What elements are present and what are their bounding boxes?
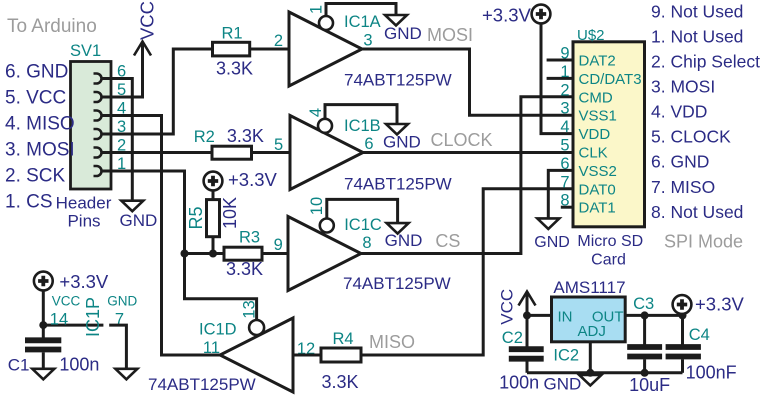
svg-text:9: 9 [274, 236, 283, 254]
wire MOSI IC1A output to SD pin3 [362, 49, 573, 115]
IC1B enable pin4 wire loop to ground [325, 105, 397, 124]
wire header pin5 to VCC [101, 42, 143, 98]
svg-text:SPI Mode: SPI Mode [664, 232, 743, 252]
svg-text:4: 4 [307, 108, 325, 117]
svg-text:IC1A: IC1A [344, 13, 381, 31]
wire ground rail AMS [527, 371, 683, 374]
wire R5 to CS node [212, 237, 215, 254]
svg-text:VDD: VDD [579, 126, 611, 143]
junction C1 / pin14 [39, 321, 47, 329]
svg-text:100n: 100n [59, 355, 99, 375]
svg-text:1: 1 [307, 5, 325, 14]
svg-text:Card: Card [591, 252, 626, 269]
svg-text:IC1P: IC1P [83, 297, 103, 337]
svg-text:R2: R2 [194, 128, 215, 146]
capacitor C2 [526, 315, 529, 346]
svg-text:+3.3V: +3.3V [228, 169, 278, 190]
wire R3 to IC1C pin9 [262, 252, 288, 255]
svg-text:GND: GND [544, 375, 582, 394]
svg-text:CD/DAT3: CD/DAT3 [579, 71, 642, 88]
resistor R1 [213, 42, 250, 56]
resistor R5 [207, 200, 220, 237]
buffer IC1A [289, 12, 362, 86]
svg-text:1. CS: 1. CS [5, 192, 53, 213]
svg-text:8. Not Used: 8. Not Used [651, 202, 743, 222]
header pin 4 contact [94, 111, 102, 121]
svg-text:MISO: MISO [369, 332, 415, 352]
capacitor C4 [681, 315, 684, 344]
header pin 6 contact [94, 74, 102, 84]
IC1D enable bubble [249, 320, 264, 335]
junction R5 bottom [209, 250, 217, 258]
ground IC1C [387, 223, 409, 234]
IC1A enable pin1 wire loop to ground [326, 4, 396, 17]
svg-text:DAT1: DAT1 [579, 200, 616, 217]
svg-text:CS: CS [435, 231, 460, 251]
svg-text:2. Chip Select: 2. Chip Select [651, 51, 760, 71]
power +3.3V SD [532, 5, 551, 24]
svg-text:C3: C3 [633, 295, 654, 313]
svg-text:Header: Header [56, 194, 112, 213]
IC1A enable bubble [319, 16, 333, 30]
svg-text:10: 10 [308, 197, 326, 215]
junction C3 / rail [641, 369, 649, 377]
power VCC arrow [134, 42, 151, 56]
wire CLOCK IC1B output to SD pin5 [363, 151, 573, 154]
ground IC1P pin7 [115, 369, 137, 380]
svg-text:3.3K: 3.3K [226, 259, 263, 279]
svg-text:6. GND: 6. GND [651, 152, 709, 172]
svg-text:IC2: IC2 [553, 347, 579, 365]
svg-text:100nF: 100nF [686, 363, 737, 383]
ground C1 [32, 369, 54, 380]
svg-text:2. SCK: 2. SCK [5, 166, 66, 187]
junction OUT / C3 [641, 311, 649, 319]
svg-text:IC1C: IC1C [344, 216, 382, 234]
capacitor C1 [42, 325, 45, 338]
svg-text:74ABT125PW: 74ABT125PW [148, 375, 256, 394]
wire IC1D pin12 to R4 [293, 354, 321, 357]
svg-text:74ABT125PW: 74ABT125PW [343, 274, 451, 293]
buffer IC1C [288, 217, 361, 291]
wire CS to IC1D enable [185, 254, 257, 321]
regulator IC2 AMS1117 body [552, 297, 626, 342]
svg-text:3.3K: 3.3K [322, 372, 359, 392]
buffer IC1B [290, 116, 363, 190]
resistor R2 [212, 146, 252, 159]
svg-text:9. Not Used: 9. Not Used [651, 1, 743, 21]
svg-text:GND: GND [385, 231, 423, 250]
svg-text:14: 14 [50, 311, 68, 329]
svg-text:5: 5 [274, 136, 283, 154]
wire +3.3V to IC1P pin14 [42, 290, 45, 325]
svg-text:3.3K: 3.3K [216, 58, 253, 78]
svg-text:+3.3V: +3.3V [695, 294, 745, 315]
svg-text:3. MOSI: 3. MOSI [5, 140, 75, 161]
svg-text:VSS2: VSS2 [579, 163, 617, 180]
svg-text:CLOCK: CLOCK [431, 130, 493, 150]
wire R1 to IC1A pin2 [250, 48, 289, 51]
wire header pin3 MOSI up to R1 [101, 49, 213, 134]
svg-text:Micro SD: Micro SD [577, 233, 643, 250]
junction ADJ / rail [586, 369, 594, 377]
resistor R4 [321, 348, 361, 362]
svg-text:+3.3V: +3.3V [482, 5, 532, 26]
wire +3.3V to R5 [212, 190, 215, 199]
svg-text:5: 5 [560, 137, 569, 155]
svg-text:3.3K: 3.3K [227, 126, 264, 146]
power +3.3V AMS out [673, 295, 692, 314]
svg-text:13: 13 [240, 300, 258, 318]
svg-text:10uF: 10uF [629, 375, 670, 395]
svg-text:IC1B: IC1B [344, 117, 381, 135]
IC1B enable bubble [318, 119, 332, 133]
power +3.3V IC1P [34, 272, 53, 291]
svg-text:C4: C4 [689, 326, 710, 344]
svg-text:U$2: U$2 [577, 27, 605, 44]
wire SD pin1 stub [547, 77, 573, 80]
wire SD pin8 stub [561, 206, 573, 209]
wire R2 to IC1B pin5 [252, 151, 291, 154]
wire header pin4 MISO down to IC1D output [101, 116, 220, 356]
svg-text:GND: GND [107, 294, 137, 309]
svg-text:100n: 100n [499, 372, 539, 392]
svg-text:R5: R5 [186, 206, 206, 229]
svg-text:IC1D: IC1D [199, 321, 237, 339]
wire OUT rail [625, 314, 682, 317]
wire CS row to R3 [185, 252, 225, 255]
svg-text:7. MISO: 7. MISO [651, 177, 715, 197]
svg-text:Pins: Pins [67, 212, 100, 231]
wire VCC to IN [527, 292, 552, 316]
svg-text:2: 2 [560, 81, 569, 99]
svg-text:GND: GND [120, 211, 158, 230]
svg-text:6: 6 [364, 135, 373, 153]
Micro SD card connector U$2 body [573, 42, 645, 227]
capacitor C3 [643, 315, 646, 344]
ground IC1B [386, 124, 408, 135]
svg-text:R1: R1 [221, 25, 242, 43]
power VCC arrow AMS [519, 292, 536, 306]
svg-text:AMS1117: AMS1117 [553, 278, 625, 297]
svg-text:VSS1: VSS1 [579, 108, 617, 125]
svg-text:3. MOSI: 3. MOSI [651, 77, 715, 97]
wire IC1P pin7 to ground [109, 325, 126, 369]
svg-text:74ABT125PW: 74ABT125PW [344, 71, 452, 90]
svg-text:GND: GND [383, 133, 421, 152]
svg-text:6. GND: 6. GND [5, 62, 68, 83]
svg-text:5. CLOCK: 5. CLOCK [651, 127, 731, 147]
wire IC1P pin14 stub [43, 324, 103, 327]
svg-text:4. VDD: 4. VDD [651, 102, 707, 122]
svg-text:IN: IN [558, 309, 573, 326]
svg-text:1. Not Used: 1. Not Used [651, 26, 743, 46]
ground SD [537, 218, 559, 229]
svg-text:DAT2: DAT2 [579, 53, 616, 70]
wire SD pin6 VSS2 to ground [548, 170, 573, 218]
svg-text:R3: R3 [239, 228, 260, 246]
svg-text:VCC: VCC [136, 1, 157, 40]
svg-text:5. VCC: 5. VCC [5, 88, 66, 109]
wire CS IC1C output to SD pin2 [361, 97, 573, 254]
svg-text:CMD: CMD [579, 89, 613, 106]
svg-text:8: 8 [362, 234, 371, 252]
svg-text:+3.3V: +3.3V [59, 271, 109, 292]
IC1C enable bubble [320, 219, 334, 233]
svg-text:10K: 10K [220, 197, 240, 229]
header pin 1 contact [94, 166, 102, 176]
svg-text:To Arduino: To Arduino [7, 16, 97, 37]
ground IC1A [385, 15, 407, 26]
svg-text:C2: C2 [502, 329, 523, 347]
svg-text:GND: GND [384, 24, 422, 43]
svg-text:3: 3 [560, 100, 569, 118]
wire header pin6 to ground [101, 79, 132, 201]
header connector SV1 body [71, 62, 112, 190]
svg-text:GND: GND [534, 234, 570, 251]
wire header pin1 CS down [101, 171, 185, 254]
power +3.3V above R5 [204, 172, 223, 191]
svg-text:4. MISO: 4. MISO [5, 114, 75, 135]
svg-text:VCC: VCC [52, 294, 81, 309]
svg-text:2: 2 [274, 32, 283, 50]
wire header pin2 SCK to R2 [101, 151, 212, 154]
wire SD pin9 stub [547, 59, 573, 62]
resistor R3 [224, 247, 262, 260]
svg-text:SV1: SV1 [70, 42, 101, 60]
junction VCC / C2 [523, 311, 531, 319]
IC1C enable pin10 wire loop to ground [327, 199, 398, 223]
junction CS / header pin1 [181, 250, 189, 258]
junction OUT / C4 [679, 311, 687, 319]
header pin 2 contact [94, 148, 102, 158]
svg-text:R4: R4 [332, 330, 353, 348]
header pin 3 contact [94, 129, 102, 139]
ground header [121, 201, 143, 212]
svg-text:ADJ: ADJ [578, 323, 606, 340]
ground AMS [579, 375, 601, 386]
wire +3.3V to SD pin4 VDD [541, 23, 573, 133]
svg-text:VCC: VCC [497, 289, 516, 325]
svg-text:MOSI: MOSI [427, 25, 473, 45]
svg-text:7: 7 [560, 173, 569, 191]
svg-text:3: 3 [363, 32, 372, 50]
header pin 5 contact [94, 92, 102, 102]
svg-text:11: 11 [203, 339, 220, 357]
svg-text:DAT0: DAT0 [579, 181, 616, 198]
svg-text:74ABT125PW: 74ABT125PW [344, 175, 452, 194]
wire MISO R4 to SD pin7 [361, 189, 573, 355]
svg-text:C1: C1 [8, 356, 30, 375]
svg-text:CLK: CLK [579, 145, 608, 162]
buffer IC1D [220, 318, 293, 392]
wire ADJ to rail [589, 342, 592, 373]
